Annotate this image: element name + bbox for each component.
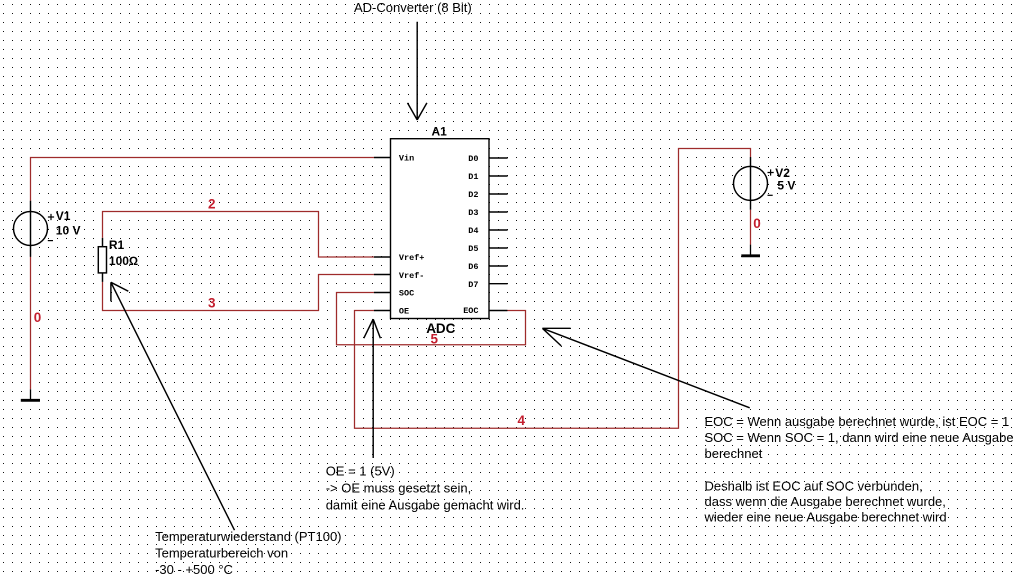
svg-text:OE: OE — [399, 306, 409, 316]
svg-text:Temperaturbereich von: Temperaturbereich von — [155, 546, 288, 561]
svg-text:SOC: SOC — [399, 289, 414, 299]
svg-text:100Ω: 100Ω — [109, 254, 138, 268]
svg-text:AD-Converter (8 Bit): AD-Converter (8 Bit) — [354, 0, 472, 15]
svg-text:Temperaturwiederstand (PT100): Temperaturwiederstand (PT100) — [155, 529, 341, 544]
svg-text:R1: R1 — [109, 238, 125, 252]
annotation arrow to R1 (PT100 pointer) — [111, 282, 235, 530]
wire net 4 (OE to V2+) — [355, 149, 751, 429]
resistor R1 — [98, 238, 138, 282]
svg-text:SOC = Wenn SOC = 1, dann wird: SOC = Wenn SOC = 1, dann wird eine neue … — [705, 430, 1014, 445]
ground (V1) — [21, 389, 40, 400]
wire net 0 (V2- to ground) — [750, 210, 752, 245]
svg-text:5 V: 5 V — [777, 179, 795, 193]
svg-text:0: 0 — [753, 216, 761, 231]
svg-text:Vref-: Vref- — [399, 271, 425, 281]
svg-text:D4: D4 — [468, 226, 478, 236]
pin D3 stub — [489, 211, 508, 213]
pin Vref+ stub — [374, 256, 391, 258]
svg-text:EOC = Wenn ausgabe berechnet w: EOC = Wenn ausgabe berechnet wurde, ist … — [705, 414, 1010, 429]
svg-text:berechnet: berechnet — [705, 446, 763, 461]
svg-text:wieder eine neue Ausgabe berec: wieder eine neue Ausgabe berechnet wird — [704, 510, 947, 525]
annotation arrow to OE wire — [364, 319, 381, 458]
svg-text:A1: A1 — [432, 124, 448, 138]
svg-text:dass wenn die Ausgabe berechne: dass wenn die Ausgabe berechnet wurde, — [705, 494, 946, 509]
svg-text:D1: D1 — [468, 172, 478, 182]
wire net 0 (V1- to ground) — [30, 257, 32, 390]
wire net 1 (V1+ to Vin) — [31, 158, 374, 201]
pin Vin stub — [374, 157, 391, 159]
annotation arrow to A1 — [408, 22, 427, 120]
svg-text:D5: D5 — [468, 244, 478, 254]
svg-text:EOC: EOC — [463, 306, 478, 316]
svg-text:-> OE muss gesetzt sein,: -> OE muss gesetzt sein, — [326, 481, 472, 496]
svg-text:3: 3 — [208, 296, 216, 311]
svg-text:D6: D6 — [468, 262, 478, 272]
pin EOC stub — [489, 310, 507, 312]
svg-text:Vref+: Vref+ — [399, 253, 425, 263]
svg-text:D0: D0 — [468, 154, 478, 164]
pin Vref- stub — [374, 274, 391, 276]
IC U1 ADC body — [391, 139, 490, 319]
svg-text:2: 2 — [208, 197, 216, 212]
svg-text:Deshalb ist EOC auf SOC verbun: Deshalb ist EOC auf SOC verbunden, — [705, 479, 923, 494]
pin D6 stub — [489, 265, 508, 267]
svg-text:D3: D3 — [468, 208, 478, 218]
pin D4 stub — [489, 229, 508, 231]
svg-text:Vin: Vin — [399, 154, 414, 164]
svg-text:4: 4 — [518, 413, 526, 428]
svg-text:damit eine Ausgabe gemacht wir: damit eine Ausgabe gemacht wird. — [326, 497, 525, 512]
wire net 2 (R1 top to Vref+) — [103, 212, 374, 258]
svg-text:D7: D7 — [468, 280, 478, 290]
svg-text:OE = 1 (5V): OE = 1 (5V) — [326, 464, 395, 479]
annotation arrow to EOC loop — [542, 328, 749, 408]
pin SOC stub — [374, 292, 391, 294]
svg-text:-30 - +500 °C: -30 - +500 °C — [155, 562, 233, 577]
svg-text:0: 0 — [34, 310, 42, 325]
svg-text:D2: D2 — [468, 190, 478, 200]
pin D0 stub — [489, 157, 508, 159]
pin D2 stub — [489, 193, 508, 195]
ground (V2) — [741, 245, 760, 256]
wire net 5 (SOC to EOC loop) — [337, 293, 526, 345]
pin OE stub — [374, 310, 391, 312]
pin D7 stub — [489, 283, 508, 285]
svg-text:ADC: ADC — [426, 321, 455, 336]
voltage source V1 — [14, 201, 81, 257]
wire net 3 (R1 bottom to Vref-) — [103, 275, 374, 311]
svg-text:10 V: 10 V — [56, 224, 81, 238]
voltage source V2 — [734, 157, 796, 210]
pin D5 stub — [489, 247, 508, 249]
pin D1 stub — [489, 175, 508, 177]
svg-text:V1: V1 — [56, 209, 71, 223]
